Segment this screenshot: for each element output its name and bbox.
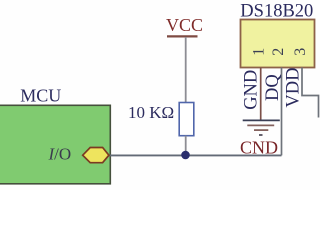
chip body U1 (241, 20, 315, 68)
wire VCC to resistor (185, 37, 187, 103)
svg-text:MCU: MCU (20, 85, 61, 105)
svg-text:VCC: VCC (166, 15, 203, 35)
svg-text:I/O: I/O (48, 145, 72, 164)
junction dot (181, 151, 190, 160)
pin I/O hexagon (83, 148, 109, 163)
svg-text:VDD: VDD (284, 68, 304, 108)
ground symbol bar4 (259, 134, 263, 136)
pin 2 wire DQ (281, 68, 283, 156)
svg-text:3: 3 (292, 48, 309, 56)
svg-text:1: 1 (251, 48, 268, 56)
power VCC bar (167, 35, 198, 37)
ground symbol bar1 (243, 119, 280, 121)
svg-text:10 KΩ: 10 KΩ (128, 103, 174, 122)
resistor R1 (179, 103, 194, 136)
svg-text:GND: GND (242, 70, 262, 110)
wire net DQ horizontal (108, 154, 282, 156)
svg-text:DS18B20: DS18B20 (240, 1, 313, 21)
ground symbol bar2 (247, 124, 274, 126)
svg-text:CND: CND (240, 137, 278, 157)
MCU box U2 (0, 105, 110, 184)
svg-text:DQ: DQ (263, 74, 283, 101)
svg-text:2: 2 (270, 48, 287, 56)
pin 3 wire VDD L-shape (302, 68, 319, 118)
wire resistor to junction (185, 136, 187, 155)
pin 1 wire GND (260, 68, 262, 121)
ground symbol bar3 (254, 129, 268, 131)
